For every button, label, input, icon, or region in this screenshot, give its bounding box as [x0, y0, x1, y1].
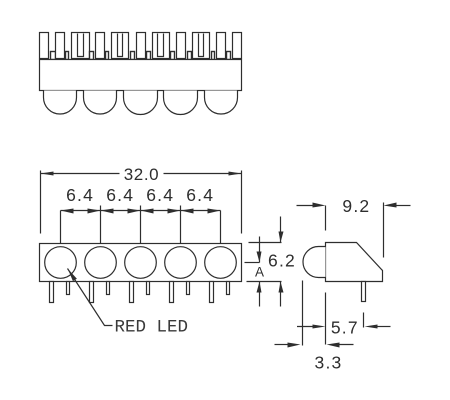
front view LED circle 4 [165, 247, 197, 279]
dimension 5.7 arrow right [365, 325, 391, 329]
dimension 32.0 arrow left [41, 172, 54, 176]
top view short pin s5 [131, 52, 135, 60]
dimension 6.4 arrows at 180.4 [168, 209, 194, 214]
top view slotted pin W4 [193, 33, 210, 59]
top view tall pin T2 [56, 33, 65, 59]
dimension 6.2 arrow bottom [279, 282, 284, 307]
svg-text:32.0: 32.0 [124, 165, 160, 184]
top view LED dome 4 [164, 91, 198, 115]
top view body [40, 60, 242, 91]
dimension 32.0 arrow right [229, 172, 242, 176]
dimension 6.2 extension line bottom [247, 281, 282, 283]
dimension 6.2 extension line top [249, 242, 282, 244]
top view LED dome 3 [124, 91, 158, 115]
svg-text:A: A [255, 265, 264, 280]
svg-text:3.3: 3.3 [315, 352, 343, 372]
front view lead 4 short [187, 282, 190, 295]
dimension 6.4 arrows at 140.4 [128, 209, 154, 214]
front view lead 4 long [170, 282, 174, 303]
top view LED dome 5 [205, 91, 238, 115]
front view lead 5 short [227, 282, 230, 295]
dimension A arrow top [257, 237, 262, 263]
top view tall pin T3 [96, 33, 105, 59]
dimension 6.4 line [61, 210, 221, 212]
dimension A arrow bottom [257, 282, 262, 307]
dimension 6.4 extension line 4 [180, 206, 182, 244]
top view short pin s9 [212, 52, 215, 60]
dimension 5.7 extension tick right [363, 313, 365, 328]
front view LED circle 2 [85, 247, 117, 279]
svg-text:RED LED: RED LED [115, 318, 189, 338]
dimension 6.4 extension line 3 [140, 206, 142, 244]
dimension 9.2 arrow left [297, 203, 326, 208]
dimension 6.4 extension line 1 [60, 211, 62, 244]
dimension 32.0 extension line left [40, 171, 42, 234]
svg-text:6.4: 6.4 [186, 185, 214, 205]
top view short pin s2 [66, 52, 69, 60]
dimension 9.2 arrow right [384, 203, 411, 208]
top view tall pin T7 [233, 33, 242, 59]
leader line RED LED [68, 269, 113, 326]
top view short pin s7 [171, 52, 175, 60]
front view lead 1 short [67, 282, 70, 295]
top view LED dome 1 [44, 91, 77, 115]
dimension 6.4 arrows at 100.4 [88, 209, 114, 214]
svg-text:5.7: 5.7 [331, 318, 359, 338]
top view short pin s3 [90, 52, 94, 60]
front view lead 2 short [107, 282, 110, 295]
dimension 32.0 line right segment [164, 173, 242, 175]
dimension 6.4 arrows at 60.4 [61, 209, 74, 214]
side view LED dome [303, 247, 326, 278]
top view tall pin T4 [137, 33, 146, 59]
front view lead 2 long [90, 282, 94, 303]
front view lead 5 long [210, 282, 214, 303]
dimension 5.7 extension line left [325, 293, 327, 345]
front view lead 3 short [147, 282, 150, 295]
top view slotted pin W1 [72, 33, 90, 59]
dimension 5.7 arrow left [297, 325, 326, 329]
top view short pin s8 [188, 52, 192, 60]
top view short pin s10 [227, 52, 231, 60]
dimension 3.3 arrow left [275, 343, 301, 348]
front view LED circle 1 [45, 247, 77, 279]
top view slotted pin W3 [153, 33, 170, 59]
front view LED circle 3 [125, 247, 157, 279]
front view lead 1 long [50, 282, 54, 303]
top view tall pin T5 [177, 33, 186, 59]
svg-text:6.4: 6.4 [106, 185, 134, 205]
dimension 32.0 extension line right [241, 171, 243, 234]
front view LED circle 5 [205, 247, 237, 279]
svg-text:9.2: 9.2 [342, 196, 370, 216]
svg-text:6.2: 6.2 [268, 251, 296, 271]
top view LED dome 2 [84, 91, 117, 115]
top view short pin s1 [51, 52, 56, 60]
svg-text:6.4: 6.4 [146, 185, 174, 205]
dimension 3.3 arrow right [327, 343, 354, 348]
dimension A extension line middle [245, 262, 260, 264]
top view slotted pin W2 [112, 33, 129, 59]
top view tall pin T6 [217, 33, 226, 59]
top view short pin s6 [147, 52, 151, 60]
side view lead [362, 282, 366, 302]
dimension 32.0 line left segment [41, 173, 120, 175]
top view tall pin T1 [40, 33, 49, 59]
dimension 6.2 arrow top [279, 217, 284, 243]
front view body [40, 244, 242, 282]
dimension 6.4 arrows at 220.4 [208, 209, 221, 214]
side view body [326, 243, 383, 282]
dimension 6.4 extension line 5 [220, 211, 222, 244]
front view lead 3 long [130, 282, 134, 303]
dimension 9.2 extension line right [383, 203, 385, 258]
dimension 3.3 extension line left (dome tip) [302, 281, 304, 346]
dimension 6.4 extension line 2 [100, 206, 102, 244]
dimension 9.2 extension line left [325, 206, 327, 231]
top view short pin s4 [106, 52, 109, 60]
svg-text:6.4: 6.4 [66, 185, 94, 205]
